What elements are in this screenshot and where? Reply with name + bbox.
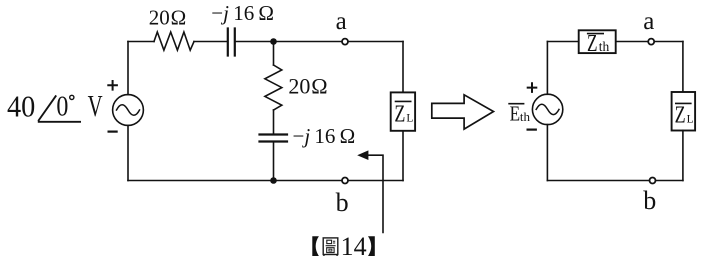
plus sign of Eth — [528, 83, 537, 92]
minus sign of V1 — [109, 131, 117, 133]
capacitor C2 -j16ohm (vertical branch plates) — [260, 135, 288, 142]
svg-text:Z: Z — [394, 102, 405, 128]
wire from right ZL box down to bottom rail — [682, 131, 684, 181]
impedance Zth box — [579, 30, 616, 53]
bottom rail wire of right circuit — [547, 180, 683, 182]
source V1 sine wave — [117, 105, 140, 116]
wire from C2 down to bottom rail — [273, 142, 275, 181]
bottom rail wire of left circuit — [128, 180, 403, 182]
junction node dot at top of parallel branch — [270, 38, 277, 45]
angle symbol slash of source label — [38, 95, 56, 121]
resistor R1 20ohm (horizontal zigzag) — [154, 32, 194, 50]
wire from C1 to node and terminal a and right edge — [235, 41, 403, 43]
resistor R2 20ohm (vertical zigzag) — [265, 65, 282, 110]
wire right vertical from terminal-a wire down to load box — [402, 42, 404, 93]
wire left vertical from top corner down to source V1 — [127, 42, 129, 95]
source Eth circle — [532, 94, 562, 124]
svg-text:20: 20 — [149, 5, 170, 29]
svg-text:th: th — [520, 109, 531, 124]
wire top-left horizontal segment (source to resistor R1) — [128, 41, 154, 43]
pointer arrowhead — [357, 150, 368, 160]
svg-text:a: a — [336, 8, 347, 35]
svg-text:−j 16 Ω: −j 16 Ω — [211, 1, 274, 25]
svg-text:20: 20 — [288, 73, 310, 98]
junction node dot at bottom of parallel branch — [270, 177, 277, 184]
wire vertical branch from top node to resistor R2 — [273, 42, 275, 66]
source V1 circle (40 angle 0 V) — [113, 95, 144, 126]
wire right vertical of right circuit down to ZL box — [682, 42, 684, 93]
wire from Zth box to terminal a and right corner — [616, 41, 683, 43]
svg-text:40: 40 — [7, 89, 35, 124]
terminal a (open circle, left circuit) — [342, 39, 348, 45]
pointer arrow to C2 (callout from caption) — [367, 155, 383, 232]
svg-text:14: 14 — [341, 232, 367, 261]
svg-text:a: a — [643, 8, 654, 35]
wire from ZL box down to bottom rail — [402, 131, 404, 181]
wire top of right circuit (source Eth to Zth box) — [547, 41, 578, 43]
source Eth sine wave — [536, 104, 559, 114]
load ZL box (right circuit) — [672, 92, 696, 131]
wire from source V1 down to bottom rail — [127, 125, 129, 180]
svg-text:L: L — [406, 113, 413, 125]
wire from source Eth down to bottom rail (right circuit) — [546, 125, 548, 181]
svg-text:−j 16 Ω: −j 16 Ω — [293, 124, 356, 148]
caption right lenticular bracket — [368, 236, 375, 256]
wire left vertical of right circuit down to source Eth — [546, 42, 548, 95]
svg-text:Z: Z — [675, 103, 686, 129]
terminal a (open circle, right circuit) — [648, 39, 654, 45]
impedance label Zth with overline — [587, 33, 604, 35]
wire between R2 and capacitor C2 — [273, 110, 275, 134]
caption left lenticular bracket — [312, 236, 319, 256]
svg-text:b: b — [336, 188, 349, 217]
svg-text:Z: Z — [587, 31, 598, 57]
big hollow arrow (implies Thevenin transformation) — [432, 95, 494, 129]
svg-text:V: V — [88, 88, 103, 123]
plus sign of V1 — [108, 81, 117, 90]
svg-text:Ω: Ω — [171, 5, 187, 29]
load label ZL with overline (left circuit) — [395, 100, 412, 102]
capacitor C1 -j16ohm (series plates) — [228, 29, 235, 56]
minus sign of Eth — [528, 129, 536, 131]
svg-text:L: L — [687, 114, 694, 126]
svg-text:Ω: Ω — [311, 73, 327, 98]
load ZL box (left circuit) — [391, 92, 415, 130]
wire between R1 and capacitor C1 — [194, 41, 228, 43]
svg-text:0: 0 — [56, 91, 68, 123]
load label ZL with overline (right circuit) — [675, 102, 692, 104]
svg-text:E: E — [510, 102, 520, 126]
terminal b (open circle, right circuit) — [650, 178, 656, 184]
source label Eth with overline — [508, 103, 524, 105]
svg-text:th: th — [599, 39, 610, 54]
caption character tu (figure) drawn glyph — [323, 238, 338, 256]
terminal b (open circle, left circuit) — [342, 178, 348, 184]
degree mark — [70, 95, 74, 99]
angle symbol underline of source label — [38, 121, 81, 123]
svg-text:b: b — [643, 186, 656, 215]
